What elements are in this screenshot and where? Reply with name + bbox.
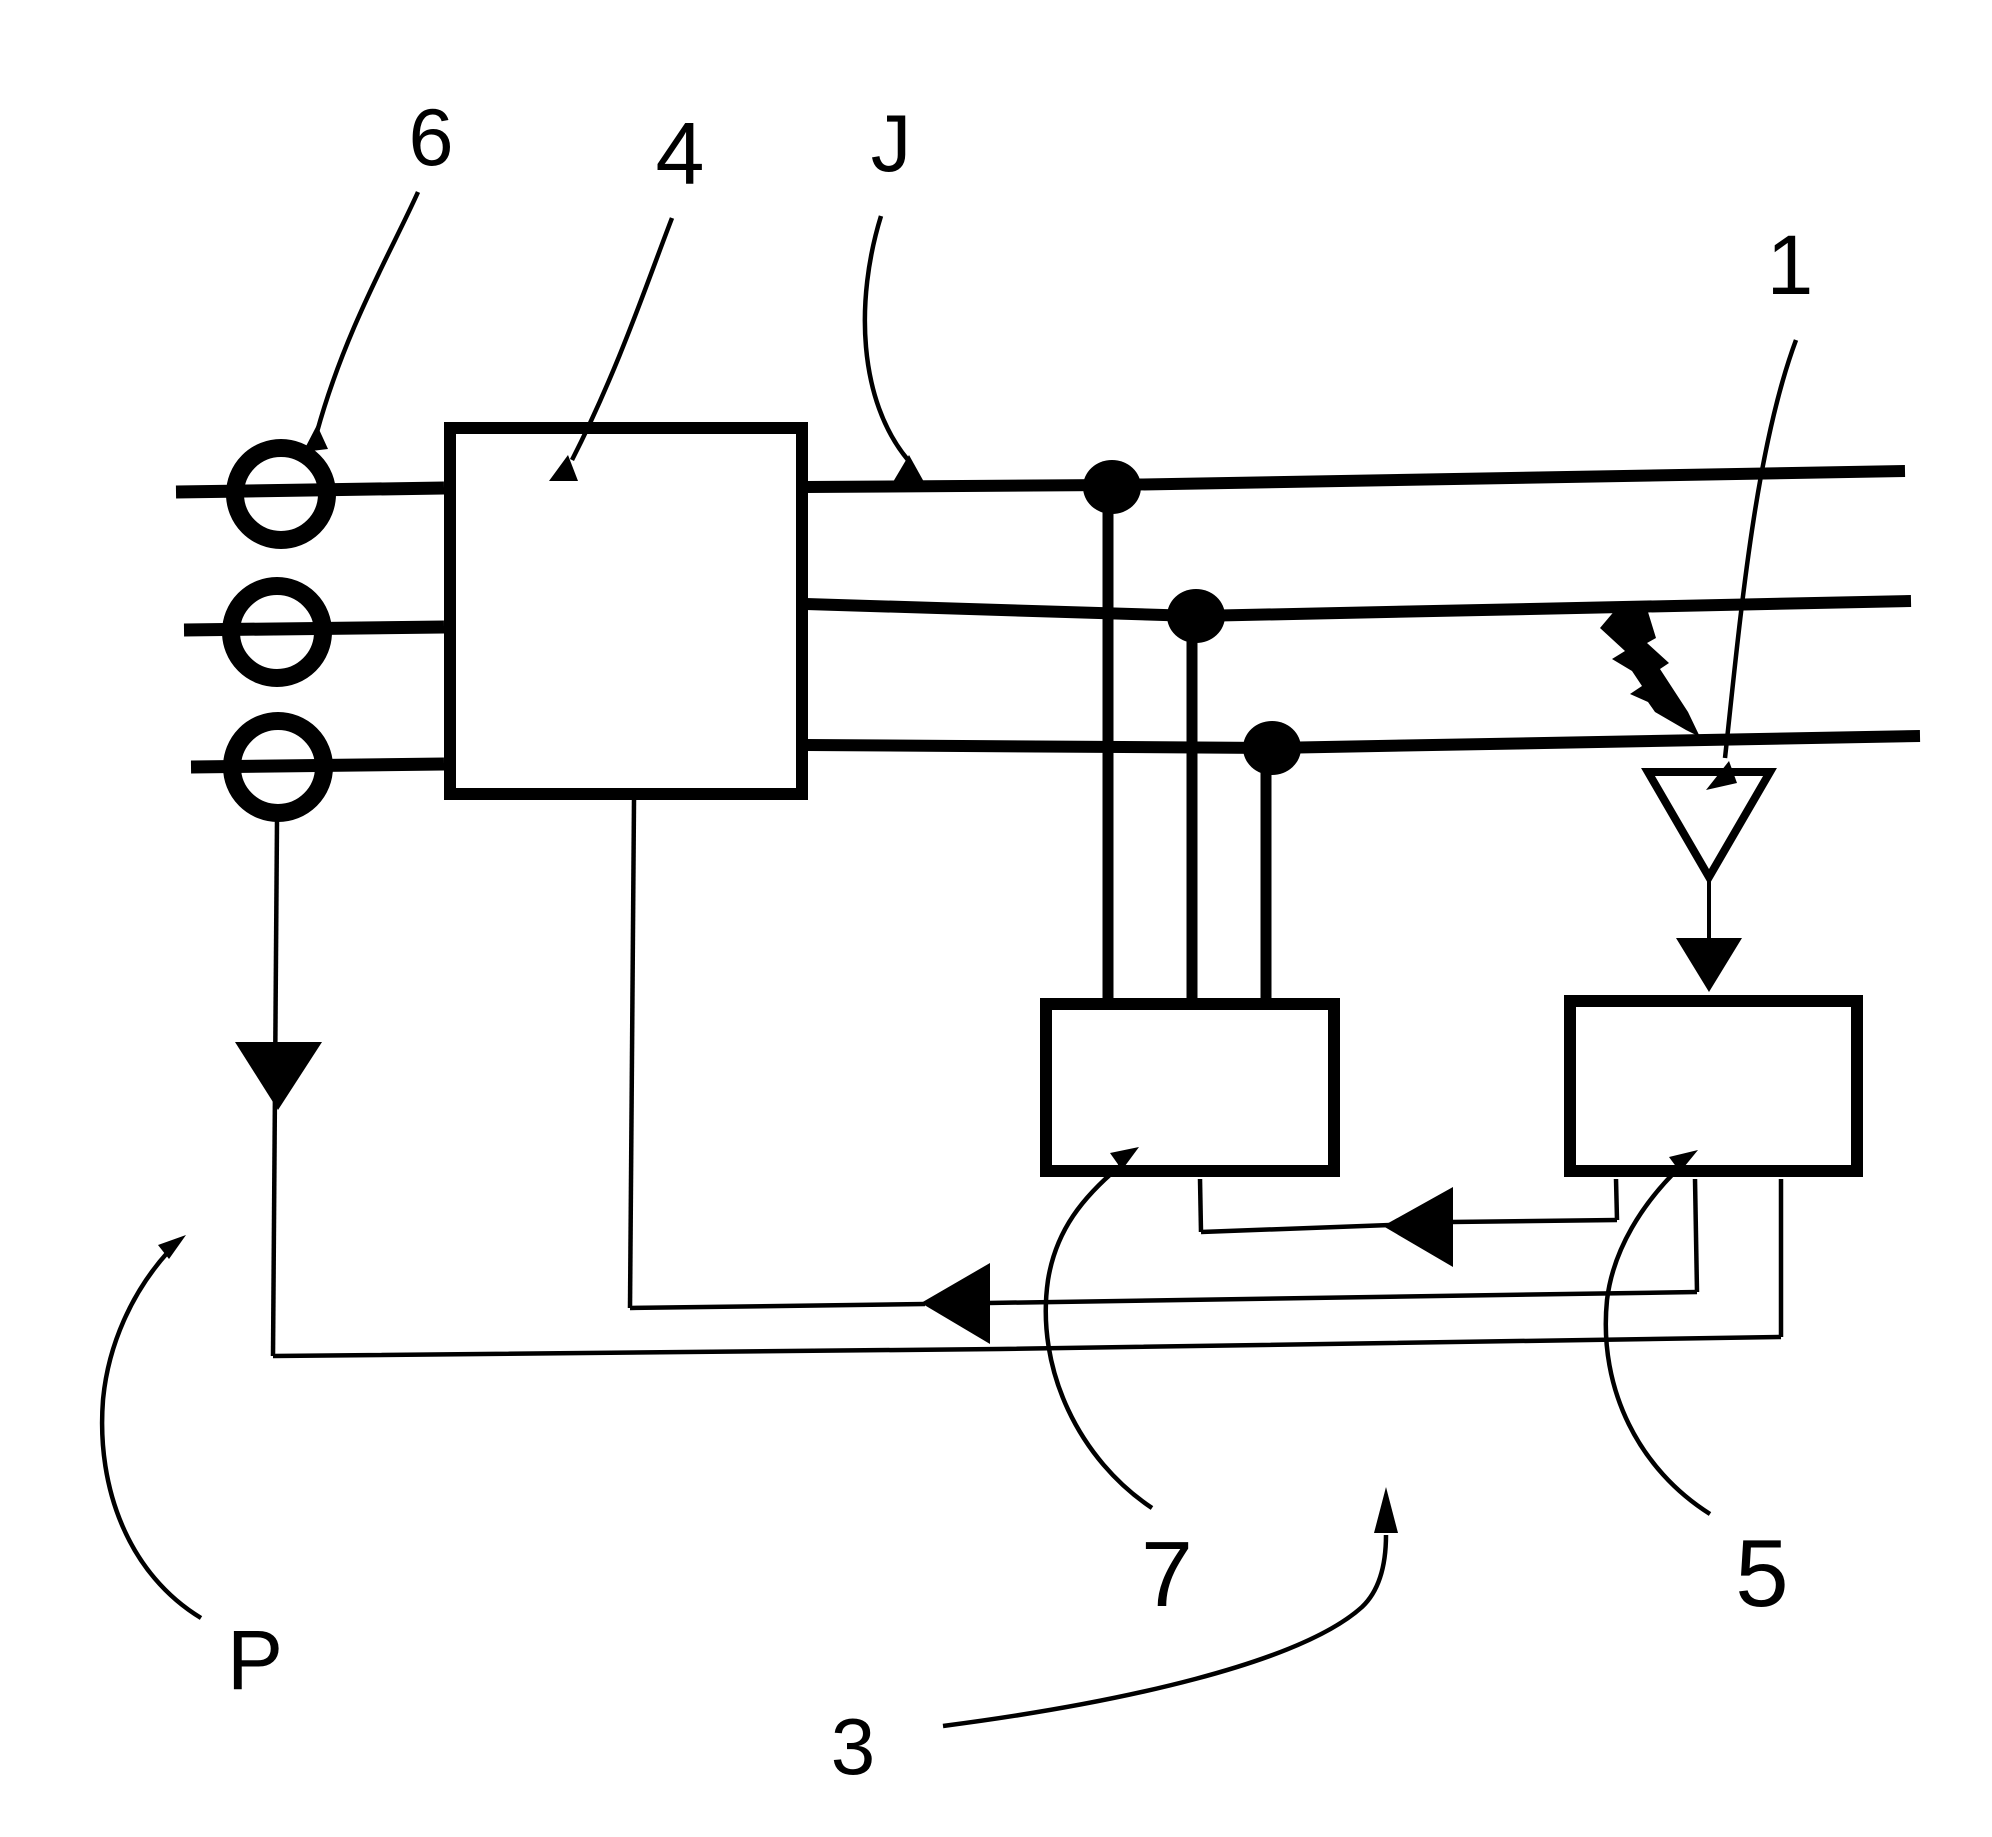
svg-text:J: J [871,99,912,189]
svg-text:7: 7 [1141,1522,1193,1626]
svg-text:4: 4 [656,104,705,203]
svg-text:1: 1 [1767,218,1814,312]
svg-text:P: P [227,1613,283,1707]
svg-text:3: 3 [831,1702,876,1791]
svg-text:5: 5 [1735,1520,1788,1627]
svg-text:6: 6 [408,93,453,183]
